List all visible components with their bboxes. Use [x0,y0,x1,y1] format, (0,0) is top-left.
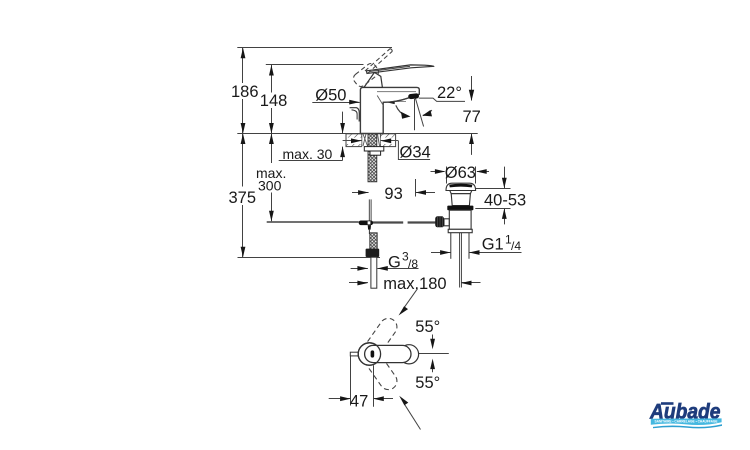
svg-text:93: 93 [384,185,402,203]
svg-text:Ø50: Ø50 [315,87,346,105]
svg-text:G: G [388,254,401,272]
svg-text:G1: G1 [482,236,504,254]
svg-text:186: 186 [231,83,259,101]
svg-text:300: 300 [258,178,282,194]
svg-text:40-53: 40-53 [484,191,526,209]
svg-text:47: 47 [350,393,368,411]
svg-text:Ø63: Ø63 [445,164,476,182]
svg-text:max. 30: max. 30 [283,146,333,162]
svg-text:Ø34: Ø34 [400,143,431,161]
svg-text:375: 375 [229,189,257,207]
svg-text:148: 148 [260,92,288,110]
svg-text:/4: /4 [511,239,521,253]
svg-text:max.180: max.180 [383,275,446,293]
svg-text:55°: 55° [415,318,440,336]
svg-text:22°: 22° [437,84,462,102]
svg-text:55°: 55° [415,374,440,392]
svg-text:77: 77 [463,108,481,126]
svg-text:SANITAIRE • CARRELAGE • CHAUFF: SANITAIRE • CARRELAGE • CHAUFFAGE [655,419,719,423]
svg-text:/8: /8 [408,257,418,271]
